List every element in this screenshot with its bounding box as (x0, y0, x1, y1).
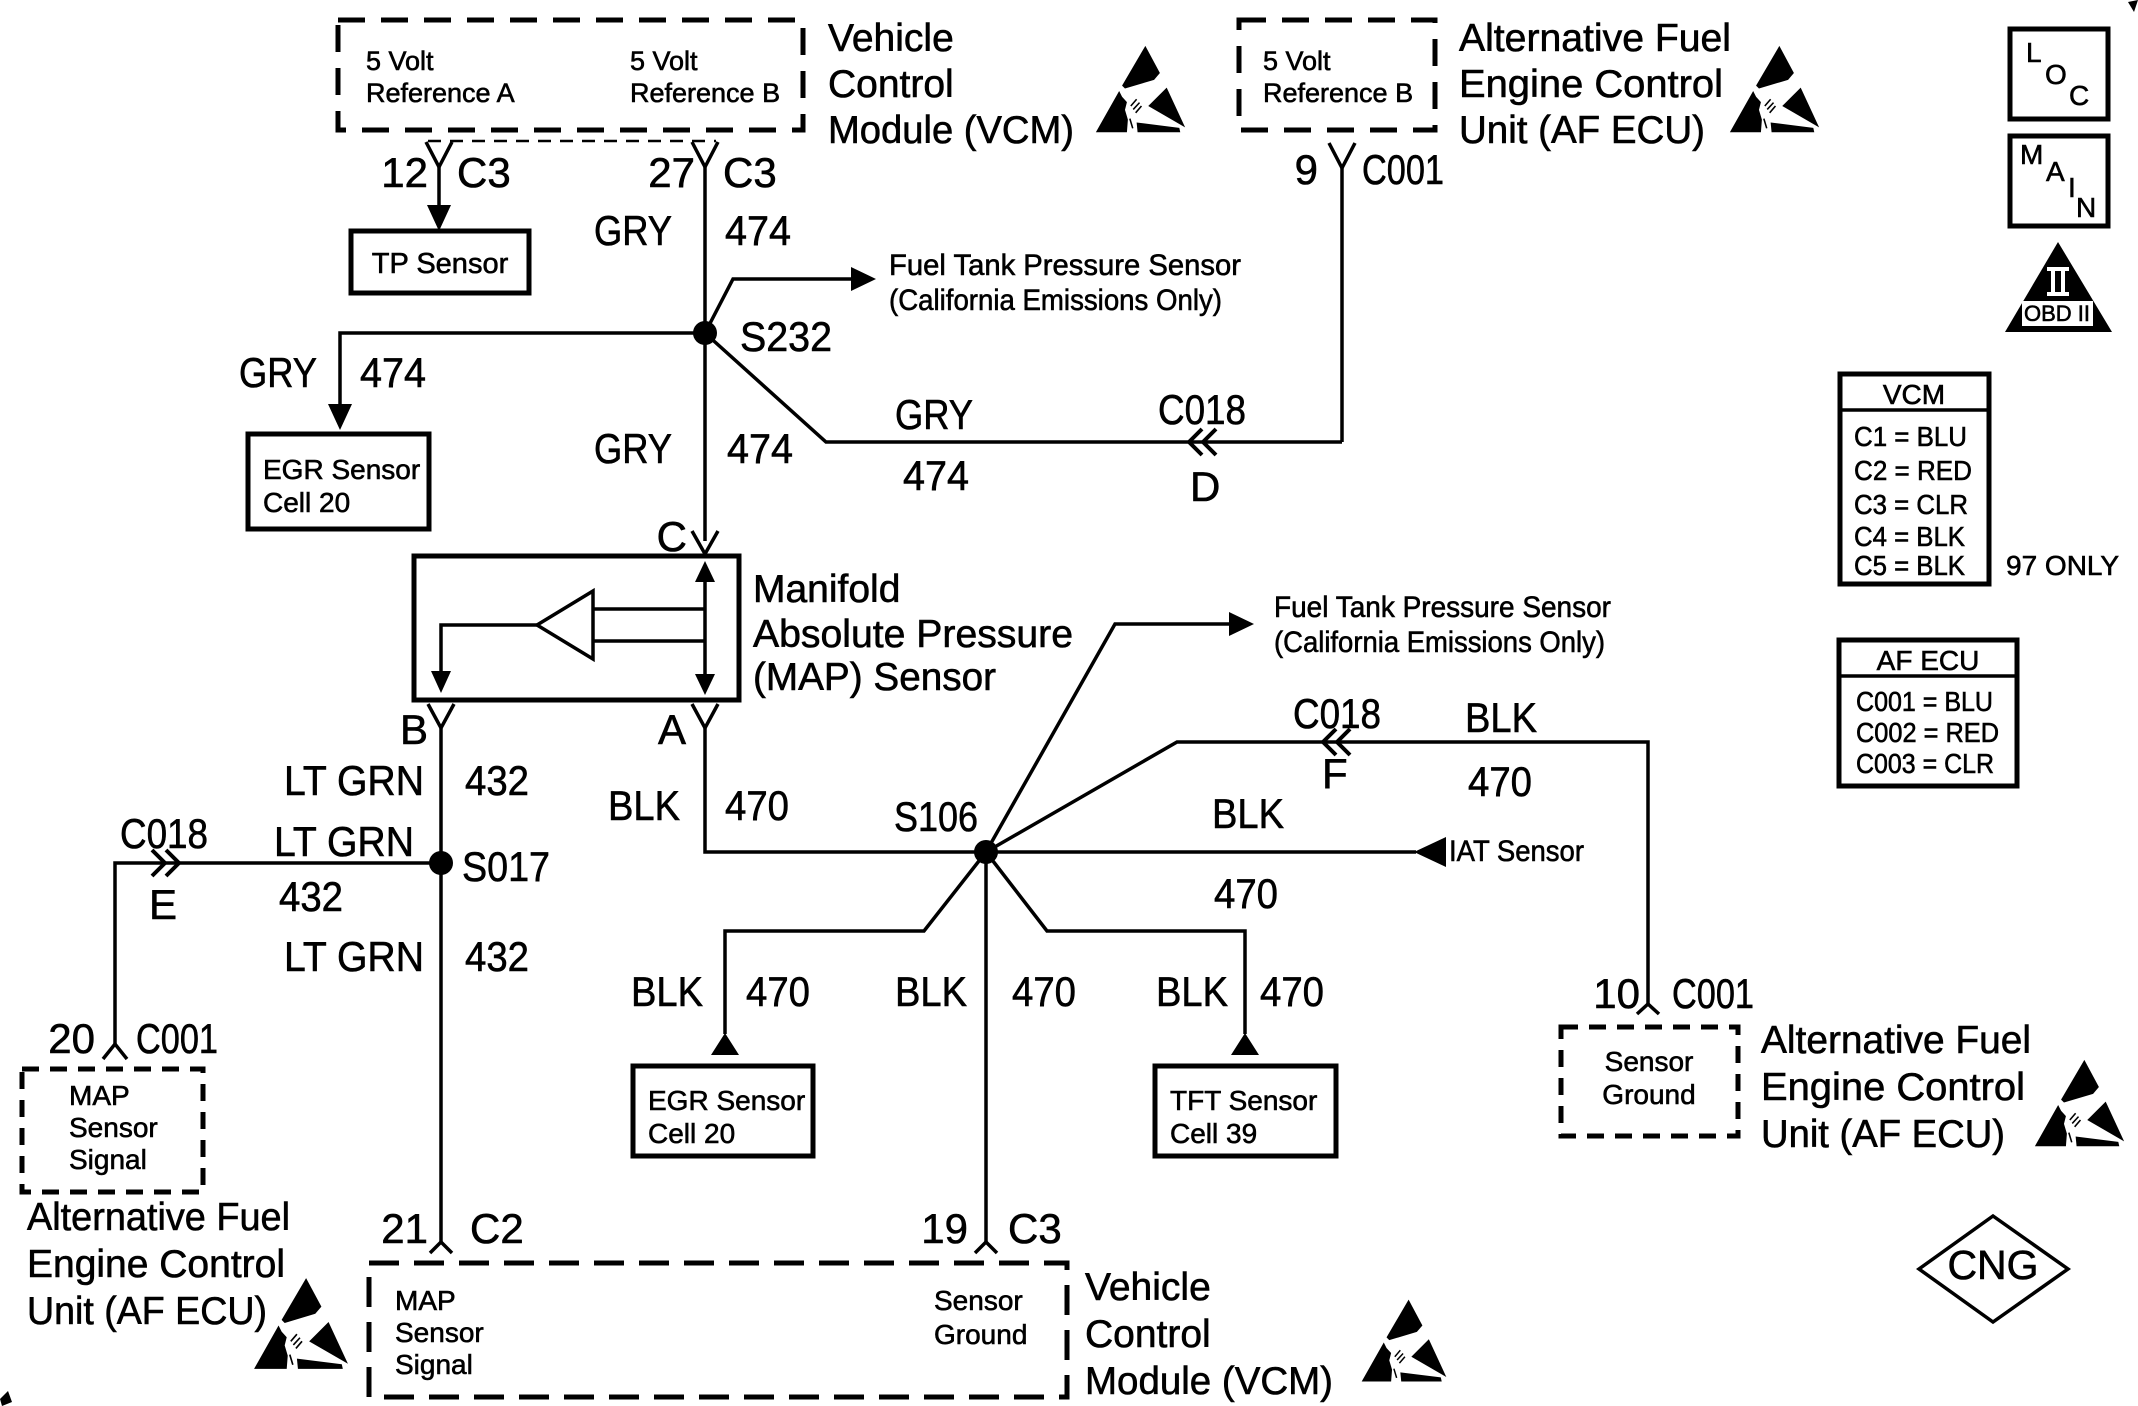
svg-text:20: 20 (48, 1015, 95, 1062)
svg-text:Cell 39: Cell 39 (1170, 1118, 1257, 1149)
svg-text:432: 432 (465, 757, 529, 804)
svg-text:E: E (149, 881, 177, 928)
label Alternative Fuel Engine Control Unit (AF ECU) top (1459, 17, 1731, 152)
splice S232 junction dot (693, 321, 717, 345)
ESD symbol bottom left (254, 1278, 348, 1369)
connector pin 21 C2 fork (430, 1242, 452, 1253)
page corner mark bottom left (0, 1391, 12, 1406)
svg-text:O: O (2045, 59, 2067, 90)
arrow up into TFT Sensor (1231, 1033, 1259, 1055)
icon OBD II triangle (2005, 242, 2112, 332)
svg-text:474: 474 (727, 425, 793, 472)
svg-text:S106: S106 (894, 793, 978, 840)
component EGR Sensor Cell 20 box (bottom) (633, 1066, 813, 1156)
svg-text:S232: S232 (740, 313, 832, 360)
svg-text:Alternative Fuel: Alternative Fuel (1761, 1019, 2031, 1062)
svg-text:Unit (AF ECU): Unit (AF ECU) (1459, 109, 1705, 152)
connector pin 27 C3 fork (692, 142, 718, 167)
svg-text:MAP: MAP (69, 1080, 130, 1111)
svg-text:Engine Control: Engine Control (1761, 1066, 2025, 1109)
svg-text:TFT Sensor: TFT Sensor (1170, 1085, 1317, 1116)
label Vehicle Control Module (VCM) bottom (1085, 1266, 1333, 1403)
wire S106 right to IAT sensor (986, 850, 1416, 854)
svg-text:C001: C001 (136, 1015, 218, 1062)
svg-text:BLK: BLK (1212, 790, 1284, 837)
svg-text:97 ONLY: 97 ONLY (2006, 550, 2119, 581)
svg-text:Module (VCM): Module (VCM) (1085, 1360, 1333, 1403)
svg-text:Cell 20: Cell 20 (263, 487, 350, 518)
svg-text:L: L (2026, 37, 2042, 68)
svg-text:432: 432 (279, 873, 343, 920)
label Fuel Tank Pressure Sensor (middle) (1274, 591, 1611, 659)
wire B down to 21 C2 (439, 728, 443, 1242)
svg-text:C018: C018 (1293, 690, 1381, 737)
svg-text:F: F (1322, 750, 1348, 797)
svg-text:Module (VCM): Module (VCM) (828, 109, 1074, 152)
svg-text:27: 27 (648, 149, 695, 196)
arrow into TP Sensor (427, 205, 451, 231)
wire 12-C3 to TP sensor (437, 167, 441, 207)
component TP Sensor box (351, 231, 529, 293)
icon MAIN box (2010, 136, 2108, 226)
svg-text:C001: C001 (1672, 970, 1754, 1017)
svg-text:C3: C3 (723, 149, 777, 196)
svg-text:C4 = BLK: C4 = BLK (1854, 521, 1965, 552)
wire S106 to TFT sensor (986, 852, 1245, 1034)
MAP sensor internal signal line (703, 576, 707, 680)
svg-text:Fuel Tank Pressure Sensor: Fuel Tank Pressure Sensor (1274, 591, 1611, 624)
svg-text:470: 470 (746, 968, 810, 1015)
wire A down and right to S106 (705, 728, 986, 852)
splice S106 junction dot (974, 840, 998, 864)
svg-text:GRY: GRY (895, 391, 973, 438)
svg-text:A: A (658, 706, 686, 753)
svg-text:Engine Control: Engine Control (1459, 63, 1723, 106)
arrow to Fuel Tank Pressure Sensor (middle) (1229, 612, 1254, 636)
ESD symbol right AF ECU (2035, 1060, 2124, 1146)
label Vehicle Control Module (VCM) top (828, 17, 1074, 152)
svg-text:470: 470 (1260, 968, 1324, 1015)
svg-text:Sensor: Sensor (1605, 1046, 1694, 1077)
connector block MAP Sensor Signal dashed box (AF ECU) (22, 1069, 203, 1192)
svg-text:Alternative Fuel: Alternative Fuel (1459, 17, 1731, 60)
svg-text:(California Emissions Only): (California Emissions Only) (1274, 626, 1605, 659)
svg-text:N: N (2076, 192, 2096, 223)
svg-text:CNG: CNG (1947, 1242, 2038, 1288)
connector pin 19 C3 fork (975, 1242, 997, 1253)
svg-text:LT GRN: LT GRN (284, 933, 424, 980)
arrow to Fuel Tank Pressure Sensor (top) (851, 267, 876, 291)
svg-text:5 Volt: 5 Volt (1263, 46, 1331, 76)
svg-text:Manifold: Manifold (753, 568, 900, 611)
svg-text:EGR Sensor: EGR Sensor (648, 1085, 805, 1116)
svg-text:C001 = BLU: C001 = BLU (1856, 686, 1993, 717)
connector C018 F chevrons (1323, 729, 1350, 755)
legend table VCM connectors (1840, 374, 1989, 584)
wire S106 to fuel tank pressure sensor (middle) (986, 624, 1229, 852)
svg-text:5 Volt: 5 Volt (366, 46, 434, 76)
wire S017 left to C018-E and down to 20 C001 (115, 863, 441, 1044)
svg-text:5 Volt: 5 Volt (630, 46, 698, 76)
svg-text:432: 432 (465, 933, 529, 980)
svg-text:GRY: GRY (594, 425, 672, 472)
svg-text:21: 21 (381, 1205, 428, 1252)
connector block AF ECU (5 Volt Reference B) dashed box (1239, 20, 1435, 130)
wire S232 left to EGR drop (340, 333, 705, 407)
wire S106 to C018-F to 10 C001 (986, 742, 1648, 1004)
wire 10 C001 fork (inverted) (1637, 1004, 1659, 1014)
label Fuel Tank Pressure Sensor (top) (889, 249, 1241, 317)
connector pin A fork (692, 704, 718, 728)
svg-text:C2: C2 (470, 1205, 524, 1252)
svg-text:M: M (2020, 139, 2043, 170)
svg-text:C002 = RED: C002 = RED (1856, 717, 1999, 748)
svg-text:C001: C001 (1362, 146, 1444, 193)
svg-text:GRY: GRY (239, 349, 317, 396)
wire S106 to EGR sensor (bottom) (725, 852, 986, 1034)
svg-text:TP Sensor: TP Sensor (372, 248, 509, 280)
svg-text:Reference B: Reference B (1263, 78, 1413, 108)
page corner mark top right (2128, 0, 2138, 12)
svg-text:Vehicle: Vehicle (828, 17, 954, 60)
svg-text:Ground: Ground (934, 1319, 1027, 1350)
svg-text:470: 470 (1214, 870, 1278, 917)
icon LOC box (2010, 29, 2108, 119)
MAP internal output line with arrow (441, 625, 537, 675)
svg-text:IAT Sensor: IAT Sensor (1449, 835, 1584, 868)
svg-text:12: 12 (381, 149, 428, 196)
wire S232 down to MAP C (703, 333, 707, 541)
label Alternative Fuel Engine Control Unit (AF ECU) bottom left (27, 1196, 290, 1333)
svg-text:Unit (AF ECU): Unit (AF ECU) (27, 1290, 267, 1333)
svg-text:9: 9 (1295, 146, 1318, 193)
svg-text:Sensor: Sensor (69, 1112, 158, 1143)
wire S106 down to 19 C3 (984, 852, 988, 1242)
svg-text:A: A (2046, 156, 2065, 187)
svg-text:BLK: BLK (608, 782, 680, 829)
icon CNG diamond (1919, 1216, 2068, 1322)
svg-text:Engine Control: Engine Control (27, 1243, 285, 1286)
connector C018 D chevrons (1189, 429, 1216, 455)
component Manifold Absolute Pressure (MAP) Sensor box (414, 556, 739, 700)
svg-text:OBD II: OBD II (2024, 301, 2090, 326)
label Manifold Absolute Pressure (MAP) Sensor (753, 568, 1073, 699)
svg-text:BLK: BLK (895, 968, 967, 1015)
svg-text:B: B (400, 706, 428, 753)
connector pin B fork (428, 704, 454, 728)
wire C018-D up to 9 C001 (1340, 168, 1344, 442)
wire S232 to C018-D (705, 333, 1342, 442)
ESD symbol top VCM (1096, 46, 1185, 132)
MAP internal transducer triangle (537, 591, 593, 659)
svg-text:BLK: BLK (631, 968, 703, 1015)
svg-text:GRY: GRY (594, 207, 672, 254)
connector pin 12 C3 fork (426, 142, 452, 167)
wire S232 to fuel tank pressure sensor (top) (705, 279, 851, 333)
svg-text:C: C (2069, 80, 2089, 111)
svg-text:MAP: MAP (395, 1285, 456, 1316)
svg-text:470: 470 (725, 782, 789, 829)
svg-text:Sensor: Sensor (934, 1285, 1023, 1316)
svg-text:C: C (657, 513, 687, 560)
component EGR Sensor Cell 20 box (left) (248, 434, 429, 529)
svg-text:Signal: Signal (395, 1349, 473, 1380)
svg-text:VCM: VCM (1883, 379, 1945, 410)
svg-text:LT GRN: LT GRN (274, 818, 414, 865)
svg-text:470: 470 (1012, 968, 1076, 1015)
legend table AF ECU connectors (1839, 640, 2017, 786)
svg-text:C018: C018 (120, 810, 208, 857)
svg-text:Unit (AF ECU): Unit (AF ECU) (1761, 1113, 2005, 1156)
svg-text:S017: S017 (462, 843, 550, 890)
svg-text:C5 = BLK: C5 = BLK (1854, 550, 1965, 581)
svg-text:D: D (1190, 463, 1220, 510)
component TFT Sensor Cell 39 box (1155, 1066, 1336, 1156)
svg-text:C003 = CLR: C003 = CLR (1856, 748, 1994, 779)
connector block Sensor Ground dashed box (AF ECU) (1561, 1027, 1738, 1136)
svg-text:474: 474 (725, 207, 791, 254)
connector pin 9 C001 fork (1329, 143, 1355, 168)
svg-text:Control: Control (1085, 1313, 1211, 1356)
ESD symbol top AF ECU (1730, 46, 1819, 132)
connector block VCM (5 Volt Reference A / B) dashed box (338, 20, 803, 130)
svg-text:Absolute Pressure: Absolute Pressure (753, 613, 1073, 656)
splice S017 junction dot (429, 851, 453, 875)
svg-text:Sensor: Sensor (395, 1317, 484, 1348)
arrow up into EGR Sensor (bottom) (711, 1033, 739, 1055)
svg-text:470: 470 (1468, 758, 1532, 805)
svg-text:C3: C3 (1008, 1205, 1062, 1252)
label Alternative Fuel Engine Control Unit (AF ECU) right (1761, 1019, 2031, 1156)
svg-text:BLK: BLK (1465, 694, 1537, 741)
svg-text:Reference B: Reference B (630, 78, 780, 108)
MAP internal arrow up (695, 561, 715, 582)
svg-text:474: 474 (903, 452, 969, 499)
svg-text:Signal: Signal (69, 1144, 147, 1175)
svg-text:10: 10 (1593, 970, 1640, 1017)
connector block VCM bottom dashed box (MAP Sensor Signal / Sensor Ground) (369, 1263, 1067, 1397)
svg-text:AF ECU: AF ECU (1877, 645, 1980, 676)
connector C018 E chevrons (152, 850, 179, 876)
svg-text:BLK: BLK (1156, 968, 1228, 1015)
svg-text:Vehicle: Vehicle (1085, 1266, 1211, 1309)
svg-text:Alternative Fuel: Alternative Fuel (27, 1196, 290, 1239)
connector pin 20 C001 fork (inverted) (103, 1044, 127, 1059)
arrow IAT Sensor (points left) (1414, 837, 1446, 867)
svg-text:474: 474 (360, 349, 426, 396)
connector pin C fork (MAP sensor) (692, 531, 718, 554)
svg-text:Control: Control (828, 63, 954, 106)
svg-text:Cell 20: Cell 20 (648, 1118, 735, 1149)
svg-text:19: 19 (921, 1205, 968, 1252)
MAP internal feed lines (593, 609, 705, 641)
svg-text:I: I (2068, 172, 2076, 203)
svg-text:(MAP) Sensor: (MAP) Sensor (753, 656, 996, 699)
svg-text:Fuel Tank Pressure Sensor: Fuel Tank Pressure Sensor (889, 249, 1241, 282)
svg-text:Reference A: Reference A (366, 78, 515, 108)
svg-text:(California Emissions Only): (California Emissions Only) (889, 284, 1222, 317)
svg-text:C3 = CLR: C3 = CLR (1854, 489, 1968, 520)
svg-text:C2 = RED: C2 = RED (1854, 455, 1972, 486)
svg-text:C018: C018 (1158, 386, 1246, 433)
connector C3 boundary dashed line (428, 140, 716, 143)
svg-text:C3: C3 (457, 149, 511, 196)
arrow into EGR Sensor (left) (328, 404, 352, 430)
svg-text:EGR Sensor: EGR Sensor (263, 454, 420, 485)
svg-text:Ground: Ground (1602, 1079, 1695, 1110)
svg-text:C1 = BLU: C1 = BLU (1854, 421, 1967, 452)
ESD symbol bottom VCM (1362, 1300, 1447, 1382)
svg-text:LT GRN: LT GRN (284, 757, 424, 804)
MAP internal arrow down (695, 674, 715, 695)
wire 27-C3 down to S232 (703, 167, 707, 333)
